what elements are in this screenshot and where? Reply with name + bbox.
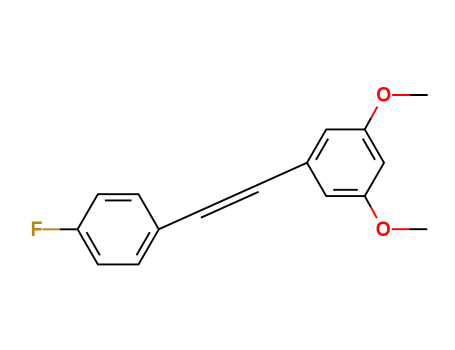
bond O-CH3 bottom (carbon half): [409, 228, 427, 230]
svg-text:F: F: [31, 219, 42, 241]
bond O-CH3 top (half near heteroatom): [392, 94, 410, 96]
ring A double bond (lower-right edge): [137, 232, 150, 255]
svg-text:O: O: [376, 218, 390, 240]
bond C-O top (half near heteroatom): [371, 107, 377, 118]
ring A double bond (lower-left edge): [87, 232, 100, 255]
bond C-O bottom (half near heteroatom): [371, 207, 377, 218]
bond C-O bottom (carbon half): [365, 196, 371, 207]
ring B double bond (upper-left edge): [316, 139, 328, 160]
bond F-C (carbon half): [60, 228, 78, 230]
vinylene chain C–CH=CH–C (drawn collinear): [159, 163, 307, 230]
chain double bond inner line: [201, 192, 259, 218]
benzene ring B (3,5-dimethoxyphenyl): [307, 129, 384, 196]
ring B double bond (upper-right edge): [363, 139, 375, 160]
benzene ring A (4-fluorophenyl): [78, 194, 159, 264]
bond O-CH3 bottom (half near heteroatom): [392, 228, 410, 230]
bond O-CH3 top (carbon half): [410, 94, 428, 96]
bond C-O top (carbon half): [365, 118, 371, 129]
bond F-C (half near heteroatom): [43, 228, 61, 230]
ring B double bond (bottom edge): [333, 189, 358, 191]
svg-text:O: O: [377, 84, 391, 106]
ring A double bond (top edge): [105, 199, 132, 201]
